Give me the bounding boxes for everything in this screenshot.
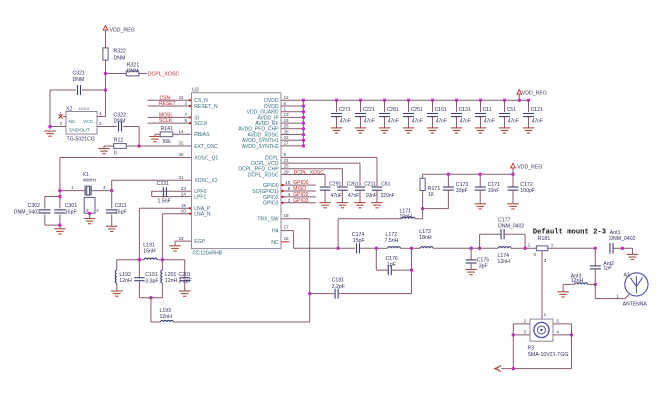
svg-text:47nF: 47nF — [484, 118, 495, 124]
node: LNA_N junction on L191 wire — [161, 258, 165, 262]
svg-text:10: 10 — [285, 180, 291, 185]
svg-text:LNA_N: LNA_N — [194, 212, 211, 218]
svg-text:SMA-10V21-TGG: SMA-10V21-TGG — [528, 352, 569, 358]
no-connect stub NC pin 16 — [281, 236, 290, 242]
node: R321 branch junction — [104, 72, 108, 76]
node: C321 branch junction — [104, 88, 108, 92]
svg-text:VDD_REG: VDD_REG — [110, 28, 135, 34]
svg-text:23: 23 — [181, 186, 187, 191]
capacitor C61 220nF — [371, 181, 394, 207]
wire: X2 pin 2 to ground — [48, 121, 66, 128]
svg-text:10: 10 — [428, 192, 434, 198]
resistor R141 56k — [155, 126, 192, 145]
svg-text:7: 7 — [184, 112, 187, 117]
svg-text:15pF: 15pF — [65, 209, 77, 215]
svg-text:33pF: 33pF — [456, 188, 468, 194]
node: L172/C176 right junction — [410, 247, 420, 251]
TCXO X2 TG-5021CG — [66, 106, 97, 142]
svg-text:47nF: 47nF — [340, 118, 351, 124]
svg-text:47nF: 47nF — [460, 118, 471, 124]
wire + net label MOSI to pin 7 — [148, 112, 192, 119]
wire: LNA_P from U3 pin 19 — [139, 203, 191, 260]
svg-text:3: 3 — [544, 258, 547, 263]
inductor L172 7.5nH — [385, 232, 412, 249]
wire: DCPL_XOSC pin 29 to C291 + net label — [281, 169, 325, 186]
op-amp/IC U3 CC120xRHB body — [192, 88, 282, 257]
svg-text:33: 33 — [178, 236, 184, 241]
svg-text:DNM_0402: DNM_0402 — [498, 224, 524, 230]
svg-text:3: 3 — [288, 198, 291, 203]
pin number 14 RBIAS — [178, 129, 184, 134]
svg-text:25: 25 — [284, 164, 290, 169]
ground below L192 — [111, 291, 123, 296]
svg-text:47nF: 47nF — [388, 118, 399, 124]
svg-text:29: 29 — [284, 169, 290, 174]
capacitor C231 1.5nF between LPF0/LPF1 — [152, 181, 192, 204]
svg-text:3pF: 3pF — [479, 263, 488, 269]
svg-text:17: 17 — [284, 225, 290, 230]
capacitor C11 47nF — [475, 99, 495, 134]
wire: P3 pin 5 — [553, 318, 572, 324]
svg-text:SCLK: SCLK — [194, 121, 208, 127]
wire: PA pin 17 to RF line — [281, 225, 337, 249]
svg-text:DNM: DNM — [73, 77, 85, 83]
svg-text:15nH: 15nH — [143, 249, 156, 255]
svg-text:DNM: DNM — [114, 119, 126, 125]
svg-text:31: 31 — [178, 175, 184, 180]
svg-text:NC: NC — [271, 240, 279, 246]
capacitor C175 3pF — [466, 247, 490, 270]
ground at Ant3 — [557, 284, 569, 297]
svg-text:C171: C171 — [488, 182, 501, 188]
wire + net label GPIO3 — [281, 198, 316, 204]
capacitor C151 47nF — [427, 99, 447, 134]
wire: XOSC_Q1 from U3 pin 30 to X1 — [60, 152, 192, 190]
svg-text:15pF: 15pF — [353, 238, 365, 244]
svg-text:EGP: EGP — [194, 239, 205, 245]
ground right of Ant1 — [627, 254, 639, 259]
wire: XOSC_X2 from X1 pin3 up to U3 pin 31 — [112, 175, 192, 191]
ground at R141 — [149, 134, 161, 141]
capacitor C271 47nF — [331, 99, 351, 134]
svg-text:XOSC_Q1: XOSC_Q1 — [194, 155, 218, 161]
svg-text:16: 16 — [284, 236, 290, 241]
svg-text:4: 4 — [99, 111, 102, 116]
svg-text:10nH: 10nH — [400, 214, 413, 220]
capacitor C131 47nF — [451, 99, 471, 134]
svg-text:47nF: 47nF — [412, 118, 423, 124]
svg-text:VCC: VCC — [83, 119, 94, 125]
capacitor C251 47nF — [403, 99, 423, 134]
node: R181 left junction — [523, 247, 536, 251]
svg-text:9: 9 — [288, 186, 291, 191]
ground below C175 — [465, 270, 477, 275]
svg-text:GPIO3: GPIO3 — [293, 198, 309, 204]
svg-text:VDD_REG: VDD_REG — [522, 90, 547, 96]
svg-text:47nF: 47nF — [364, 118, 375, 124]
svg-text:DNM: DNM — [114, 56, 126, 62]
svg-text:EXT_OSC: EXT_OSC — [194, 144, 218, 150]
svg-text:RESET: RESET — [159, 101, 176, 107]
svg-text:C221: C221 — [363, 107, 375, 113]
svg-text:R171: R171 — [428, 186, 441, 192]
capacitor C211 10nF — [354, 181, 377, 207]
capacitor C261 47nF — [337, 181, 360, 207]
svg-text:5: 5 — [284, 101, 287, 106]
svg-text:2: 2 — [59, 121, 62, 126]
svg-text:0: 0 — [114, 150, 117, 156]
wire + net label RESET to pin 2 — [148, 101, 192, 108]
power symbol VDD_REG (top left) — [103, 26, 134, 49]
svg-text:C302: C302 — [28, 203, 41, 209]
svg-text:2: 2 — [523, 318, 526, 323]
svg-text:1: 1 — [59, 111, 62, 116]
wire: VDD_REG rail (top) — [303, 99, 528, 101]
node: L171 bias branch junction — [336, 247, 355, 251]
capacitor C281 47nF — [379, 99, 399, 134]
resistor R171 10 — [420, 174, 440, 210]
connector P3 SMA-10V21-TGG — [528, 312, 569, 358]
inductor L173 18nH — [419, 229, 471, 249]
svg-text:R322: R322 — [114, 49, 127, 55]
crystal X1 case with ground pins 2 and 4 — [84, 198, 100, 224]
wire: DCPL_PFD_CHP pin 25 to C261 — [281, 164, 342, 186]
capacitor C322 DNM — [114, 113, 140, 132]
svg-text:C172: C172 — [520, 182, 533, 188]
crystal X1 40MHz — [58, 172, 113, 195]
inductor L192 12nH — [115, 260, 132, 291]
svg-text:8: 8 — [184, 118, 187, 123]
svg-text:20: 20 — [181, 209, 187, 214]
svg-text:C131: C131 — [459, 107, 471, 113]
svg-text:3: 3 — [523, 329, 526, 334]
svg-text:DNM_0402: DNM_0402 — [609, 236, 635, 242]
svg-text:1pF: 1pF — [603, 265, 612, 271]
svg-text:3: 3 — [103, 185, 106, 190]
svg-text:DCPL_XOSC: DCPL_XOSC — [148, 72, 180, 78]
svg-text:56k: 56k — [163, 139, 172, 145]
wire: P3 pin 3 — [512, 329, 530, 336]
svg-text:18: 18 — [284, 213, 290, 218]
node: C181 junction on TRX_SW line — [308, 292, 312, 296]
wire: X2 pin 4 to VDD line — [97, 111, 106, 117]
capacitor C173 33pF — [423, 173, 469, 209]
svg-text:A1: A1 — [624, 272, 630, 278]
capacitor Ant2 1pF — [590, 248, 614, 286]
svg-text:VDD_REG: VDD_REG — [517, 165, 542, 171]
svg-text:32: 32 — [178, 141, 184, 146]
capacitor C291 47nF — [319, 181, 342, 207]
svg-text:DNM_0402: DNM_0402 — [14, 209, 40, 215]
svg-text:NC: NC — [69, 119, 77, 125]
capacitor C177 DNM_0402 (parallel over L174) — [478, 218, 525, 250]
capacitor C174 15pF — [352, 232, 376, 254]
svg-text:DNM: DNM — [127, 68, 139, 74]
inductor L171 10nH — [338, 209, 423, 249]
inductor Ant3 12nH — [563, 274, 595, 285]
svg-text:C151: C151 — [435, 107, 447, 113]
resistor R181 0 (jumper) — [527, 236, 595, 319]
svg-text:12nH: 12nH — [165, 278, 178, 284]
capacitor C51 47nF — [499, 99, 519, 134]
svg-text:3.3pF: 3.3pF — [145, 278, 158, 284]
svg-text:22: 22 — [284, 135, 290, 140]
svg-text:P3: P3 — [528, 345, 534, 351]
svg-text:3.3pF: 3.3pF — [178, 278, 191, 284]
ground below C171 — [474, 204, 486, 209]
svg-text:30: 30 — [178, 152, 184, 157]
ground at X2 pin 2 — [44, 131, 56, 136]
svg-text:RESET_N: RESET_N — [194, 104, 218, 110]
capacitor C121 47nF — [523, 99, 543, 134]
svg-text:SCLK: SCLK — [159, 118, 173, 124]
svg-text:C61: C61 — [381, 181, 390, 187]
svg-text:TG-5021CG: TG-5021CG — [67, 137, 95, 143]
svg-text:40MHz: 40MHz — [83, 178, 97, 183]
svg-text:U3: U3 — [192, 88, 199, 94]
capacitor C171 10nF — [475, 173, 500, 204]
resistor R322 DNM — [103, 48, 126, 117]
svg-text:15: 15 — [284, 118, 290, 123]
svg-text:40MHz: 40MHz — [79, 107, 90, 111]
capacitor C176 1pF (parallel) — [376, 248, 413, 275]
inductor L191 15nH — [117, 242, 185, 259]
wire: C321 left leg down to X2 pin 2 — [49, 90, 51, 130]
capacitor C191 3.3pF — [134, 260, 158, 298]
svg-text:C181: C181 — [332, 278, 345, 284]
wire + net label GPIO0 — [281, 180, 316, 186]
svg-text:19: 19 — [181, 203, 187, 208]
wire: X2 pin 3 output — [97, 121, 117, 127]
svg-text:2: 2 — [184, 101, 187, 106]
wire + net label CSN to pin 11 — [148, 95, 192, 102]
svg-text:GPIO3: GPIO3 — [263, 201, 279, 207]
ground at EGP — [169, 246, 181, 251]
svg-text:DCPL_XOSC: DCPL_XOSC — [294, 170, 325, 176]
capacitor C302 DNM_0402 (parallel) — [14, 195, 62, 227]
svg-text:13: 13 — [284, 112, 290, 117]
svg-text:RBIAS: RBIAS — [194, 132, 210, 138]
svg-text:C11: C11 — [483, 107, 492, 113]
wire: C322 down to EXT_OSC node — [137, 127, 141, 148]
svg-text:0: 0 — [533, 252, 536, 257]
svg-text:7.5nH: 7.5nH — [385, 238, 399, 244]
pin number 32 EXT_OSC — [178, 141, 184, 146]
resistor R321 DNM — [106, 62, 148, 76]
svg-text:AVDD_SYNTH2: AVDD_SYNTH2 — [242, 144, 279, 150]
svg-text:C121: C121 — [531, 107, 543, 113]
svg-text:L191: L191 — [143, 242, 155, 248]
svg-text:24: 24 — [181, 192, 187, 197]
svg-text:28: 28 — [284, 129, 290, 134]
svg-text:CC120xRHB: CC120xRHB — [193, 251, 223, 257]
capacitor Ant1 DNM_0402 — [594, 230, 636, 254]
node: LNA_P junction on L191 wire — [138, 258, 142, 262]
capacitor C181 2.2pF — [310, 270, 412, 299]
svg-text:4: 4 — [288, 192, 291, 197]
svg-text:12nH: 12nH — [160, 314, 173, 320]
svg-text:C251: C251 — [411, 107, 423, 113]
svg-text:6: 6 — [284, 152, 287, 157]
power symbol VDD_REG (top rail) — [517, 90, 547, 102]
svg-text:TRX_SW: TRX_SW — [257, 217, 278, 223]
resistor R12 0 — [104, 137, 139, 156]
svg-text:2.2pF: 2.2pF — [332, 284, 345, 290]
text: Default mount 2-3 — [533, 229, 606, 237]
svg-text:47nF: 47nF — [508, 118, 519, 124]
svg-text:14: 14 — [178, 129, 184, 134]
svg-text:1.5nF: 1.5nF — [158, 199, 171, 205]
capacitor C301 15pF — [54, 191, 77, 226]
svg-text:R141: R141 — [161, 126, 174, 132]
capacitor C201 3.3pF — [178, 260, 191, 291]
svg-text:R181: R181 — [538, 236, 551, 242]
wire: P3 shield to ground rail — [501, 324, 571, 370]
ground below C301/C302 — [54, 225, 66, 234]
inductor L201 12nH — [161, 260, 178, 298]
svg-text:220nF: 220nF — [381, 193, 395, 199]
svg-text:47nF: 47nF — [436, 118, 447, 124]
svg-text:XOSC_X2: XOSC_X2 — [194, 178, 218, 184]
svg-text:1: 1 — [71, 185, 74, 190]
ground below C311 — [106, 226, 118, 231]
svg-text:R12: R12 — [114, 137, 124, 143]
svg-text:11: 11 — [179, 95, 184, 100]
svg-text:GNDOUT: GNDOUT — [69, 128, 90, 134]
svg-text:1: 1 — [551, 243, 554, 248]
wire + net label GPIO2 — [281, 192, 316, 198]
svg-text:ANTENNA: ANTENNA — [623, 302, 648, 308]
capacitor C221 47nF — [355, 99, 375, 134]
svg-text:C281: C281 — [387, 107, 399, 113]
svg-text:C271: C271 — [339, 107, 351, 113]
svg-text:100pF: 100pF — [520, 188, 535, 194]
wire: DCPL_VCO pin 21 to C211 — [281, 158, 360, 186]
svg-text:26: 26 — [284, 124, 290, 129]
svg-text:C173: C173 — [456, 182, 469, 188]
capacitor C172 100pF — [508, 173, 536, 204]
inductor L193 12nH — [151, 308, 310, 322]
power symbol VDD_REG (bias rail) — [511, 163, 543, 174]
svg-text:27: 27 — [284, 141, 290, 146]
svg-text:18nH: 18nH — [419, 235, 432, 241]
svg-text:L201: L201 — [165, 272, 177, 278]
svg-text:4: 4 — [96, 208, 99, 213]
svg-text:47nF: 47nF — [532, 118, 543, 124]
svg-text:4: 4 — [556, 329, 559, 334]
inductor L174 12nH — [471, 247, 525, 265]
ground below C201 — [179, 291, 191, 296]
svg-text:12nH: 12nH — [498, 259, 511, 265]
antenna A1 — [595, 272, 648, 307]
wire: TRX_SW pin 18 — [281, 213, 310, 322]
svg-text:X2: X2 — [66, 106, 72, 112]
svg-text:PA: PA — [272, 229, 279, 235]
svg-text:10nF: 10nF — [488, 188, 500, 194]
node: L172/C176 left junction — [375, 247, 388, 251]
svg-text:C322: C322 — [114, 113, 127, 119]
svg-text:12nH: 12nH — [119, 278, 132, 284]
wire: DCPL pin 6 to C61 — [281, 152, 377, 186]
svg-text:12nH: 12nH — [571, 278, 584, 284]
svg-text:DCPL_XOSC: DCPL_XOSC — [248, 172, 279, 178]
svg-text:10nF: 10nF — [366, 193, 377, 199]
svg-text:47nF: 47nF — [348, 193, 359, 199]
wire: EXT_OSC net to U3 pin 32 — [139, 145, 191, 147]
capacitor C321 DNM — [50, 71, 106, 96]
svg-text:LPF1: LPF1 — [194, 195, 206, 201]
svg-text:3: 3 — [99, 121, 102, 126]
svg-text:2: 2 — [527, 243, 530, 248]
wire: LNA_N from U3 pin 20 — [162, 209, 191, 260]
ground below C172 — [507, 204, 519, 209]
wire: balun bottom loop — [139, 296, 162, 322]
wire: P3 pin 2 — [513, 318, 530, 324]
capacitor C311 15pF — [106, 191, 127, 227]
ground at R12 — [98, 146, 110, 154]
svg-text:C301: C301 — [65, 203, 78, 209]
net label DCPL_XOSC (left) — [148, 72, 180, 78]
wire: VDD_REG sub-rail — [423, 173, 513, 175]
svg-text:C201: C201 — [178, 272, 191, 278]
wire: P3 pin 4 — [553, 329, 573, 336]
svg-text:C191: C191 — [145, 272, 158, 278]
wire: EGP pin 33 to ground — [175, 236, 192, 246]
svg-text:C321: C321 — [73, 71, 86, 77]
svg-text:1: 1 — [544, 312, 547, 317]
svg-text:47nF: 47nF — [331, 193, 342, 199]
ground arrow (P3 shield) — [495, 365, 502, 371]
wire + net label MISO — [281, 186, 316, 192]
no-connect X2 pin 1 (NC) — [59, 111, 67, 119]
svg-text:1: 1 — [284, 107, 287, 112]
svg-text:21: 21 — [284, 158, 290, 163]
svg-text:L192: L192 — [119, 272, 131, 278]
svg-text:5: 5 — [556, 318, 559, 323]
power pin stubs DVDD..AVDD_SYNTH2 with bus — [281, 95, 305, 148]
svg-text:1: 1 — [616, 293, 619, 298]
svg-text:15pF: 15pF — [115, 209, 127, 215]
svg-text:C231: C231 — [157, 181, 170, 187]
svg-text:C311: C311 — [115, 203, 127, 209]
svg-text:1pF: 1pF — [387, 262, 396, 268]
svg-text:12: 12 — [284, 95, 290, 100]
wire + net label SCLK to pin 8 — [148, 118, 192, 125]
svg-text:C51: C51 — [507, 107, 516, 113]
